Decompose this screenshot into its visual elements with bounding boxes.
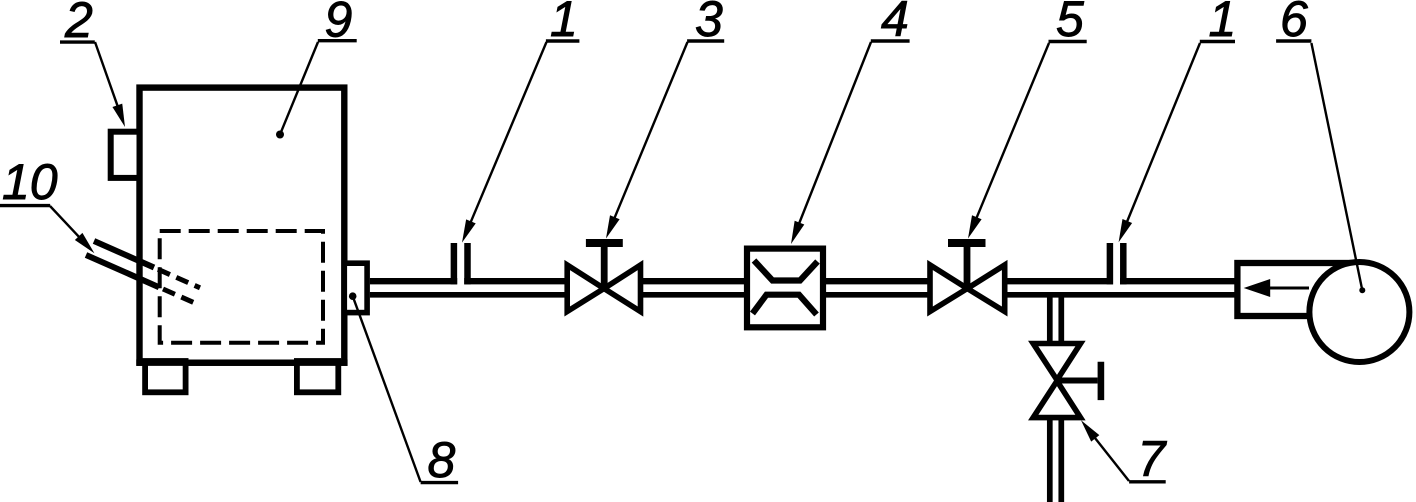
leader line for label 2 [95, 42, 118, 107]
wire upper pipe: stub 1b to pump 6 [1120, 278, 1237, 284]
wire lower pipe: valve 3 to box 4 [641, 292, 746, 298]
arrowhead for label 4 [791, 221, 804, 244]
pump 6 fan circle [1309, 262, 1409, 362]
fitting 2 (small box on left wall) [111, 132, 140, 178]
valve 7 handle bar [1098, 362, 1105, 400]
pump 6 body rectangle [1237, 263, 1359, 316]
probe 10 upper line (dashed continuation) [158, 269, 200, 288]
arrowhead for label 1b [1119, 219, 1133, 242]
pipeline lower line segments [370, 292, 1237, 298]
svg-text:10: 10 [2, 154, 58, 210]
dashed inner chamber of box 9 [160, 231, 323, 343]
left leg of box 9 [145, 361, 186, 392]
label 10 underline [0, 204, 50, 207]
valve 3 left triangle [567, 265, 604, 312]
leader line for label 7 [1094, 437, 1129, 481]
leader line for label 1a [470, 42, 546, 223]
leader line for label 3 [614, 42, 688, 219]
valve 5 left triangle [930, 265, 967, 312]
pipeline upper line segments [370, 278, 1237, 284]
label 1a underline [546, 39, 580, 42]
branch right vertical wire [1058, 295, 1064, 344]
arrowhead for label 10 [75, 233, 95, 253]
arrowhead for label 2 [112, 104, 125, 127]
probe 10 lower line (solid part) [86, 255, 159, 287]
valve 3 stem [601, 243, 608, 289]
wire lower pipe: valve 5 to pump 6 [1005, 292, 1237, 298]
flow restrictor 4 lower contour [753, 295, 817, 315]
valve 3 handle T-bar [586, 239, 623, 247]
label 2 underline [60, 40, 95, 43]
label 9 underline [318, 39, 357, 42]
probe 10 upper line (solid part) [94, 241, 154, 268]
label 3 underline [687, 39, 724, 42]
stub 1a right vertical [464, 243, 471, 284]
leader line for label 5 [976, 43, 1049, 219]
wire lower pipe: nozzle 8 to valve 3 [370, 292, 567, 298]
leader line for label 6 [1311, 43, 1362, 290]
wire upper pipe: box 4 to valve 5 [824, 278, 930, 284]
furnace box 9 (apparatus body) [140, 88, 345, 363]
arrowhead for label 7 [1081, 420, 1099, 441]
outlet nozzle 8 on right wall of box 9 [344, 263, 367, 312]
arrowhead for label 5 [968, 215, 982, 238]
leader line for label 10 [50, 206, 80, 238]
label 4 underline [871, 39, 910, 42]
leader line for label 1b [1127, 43, 1201, 223]
valve 7 stem [1057, 378, 1098, 384]
label 8 underline [421, 481, 459, 484]
wire upper pipe: valve 5 to stub 1b [1005, 278, 1113, 284]
flow restrictor 4 box [747, 249, 823, 328]
label 1b underline [1200, 40, 1235, 43]
leader dot for label 6 [1359, 287, 1365, 293]
label 5 underline [1049, 40, 1087, 43]
leader dot for label 9 [276, 131, 284, 139]
probe 10 lower line (dashed continuation) [163, 289, 196, 304]
drain left vertical wire below valve 7 [1047, 420, 1053, 502]
valve 7 lower triangle [1033, 381, 1080, 418]
flow restrictor 4 upper contour [754, 261, 818, 281]
branch left vertical wire [1047, 295, 1053, 344]
leader dot for label 8 [349, 292, 357, 300]
drain right vertical wire below valve 7 [1058, 420, 1064, 502]
label 7 underline [1129, 480, 1166, 483]
stub 1b right vertical [1120, 243, 1127, 284]
arrowhead for label 3 [606, 215, 620, 238]
bottom edge of box 9 redrawn over legs [136, 360, 347, 366]
valve 5 stem [964, 243, 971, 289]
leader line for label 9 [280, 42, 318, 135]
label 6 underline [1276, 39, 1311, 42]
svg-text:7: 7 [1138, 431, 1168, 487]
wire upper pipe: nozzle 8 to stub 1 [370, 278, 457, 284]
valve 3 right triangle [604, 265, 641, 312]
arrowhead for label 1a [462, 219, 476, 242]
wire upper pipe: valve 3 to box 4 [641, 278, 746, 284]
valve 5 handle T-bar [948, 239, 986, 247]
wire lower pipe: box 4 to valve 5 [824, 292, 930, 298]
svg-text:8: 8 [428, 432, 456, 488]
flow direction arrow in pump body [1270, 287, 1309, 290]
leader line for label 4 [799, 42, 871, 225]
right leg of box 9 [297, 361, 338, 392]
valve 7 upper triangle [1033, 344, 1080, 381]
leader line for label 8 [353, 296, 421, 482]
stub 1a (sampling connection) left vertical [451, 243, 458, 284]
stub 1b (sampling connection) left vertical [1107, 243, 1114, 284]
wire upper pipe: stub 1 to valve 3 [464, 278, 567, 284]
valve 5 right triangle [967, 265, 1004, 312]
